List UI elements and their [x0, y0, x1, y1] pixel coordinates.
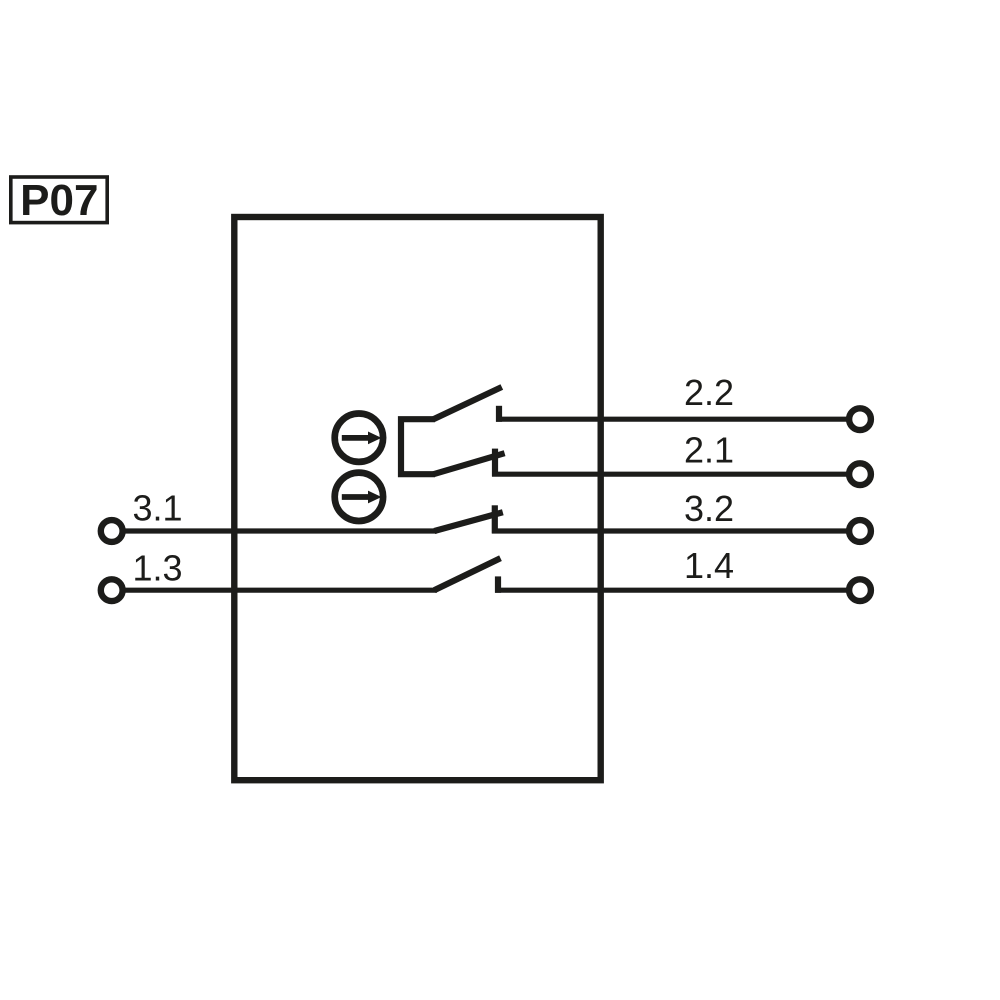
contact blade 1.4: [434, 558, 500, 590]
svg-text:3.2: 3.2: [684, 488, 734, 529]
wire 2.2: [496, 417, 849, 422]
terminal 3.1: [101, 520, 123, 542]
wire 2.1: [492, 472, 849, 477]
svg-text:1.4: 1.4: [684, 545, 734, 586]
contact blade 2.1: [434, 453, 505, 474]
terminal 2.1: [849, 463, 871, 485]
terminal 2.2: [849, 408, 871, 430]
wire 1.4: [495, 588, 849, 593]
contact blade 2.2: [434, 387, 502, 419]
terminal 1.3: [101, 579, 123, 601]
svg-text:2.2: 2.2: [684, 372, 734, 413]
terminal 3.2: [849, 520, 871, 542]
fixed contact stub 3.2: [492, 505, 498, 533]
actuator symbol circle A1: [335, 414, 383, 462]
actuator arrow A1: [342, 432, 382, 445]
fixed contact stub 1.4: [495, 576, 501, 592]
svg-text:1.3: 1.3: [133, 548, 183, 589]
svg-text:P07: P07: [20, 176, 98, 225]
actuator link bracket: [401, 419, 435, 474]
actuator symbol circle A2: [335, 473, 383, 521]
label frame P07: [11, 177, 107, 223]
fixed contact stub 2.2: [496, 406, 502, 422]
switch body outline S1: [234, 217, 600, 780]
wire 3.1: [122, 528, 437, 533]
actuator arrow A2: [342, 491, 382, 504]
fixed contact stub 2.1: [492, 449, 498, 477]
contact blade 3.2: [434, 512, 503, 531]
wire 3.2: [492, 528, 849, 533]
svg-text:3.1: 3.1: [133, 488, 183, 529]
svg-text:2.1: 2.1: [684, 429, 734, 470]
wire 1.3: [122, 588, 437, 593]
terminal 1.4: [849, 579, 871, 601]
